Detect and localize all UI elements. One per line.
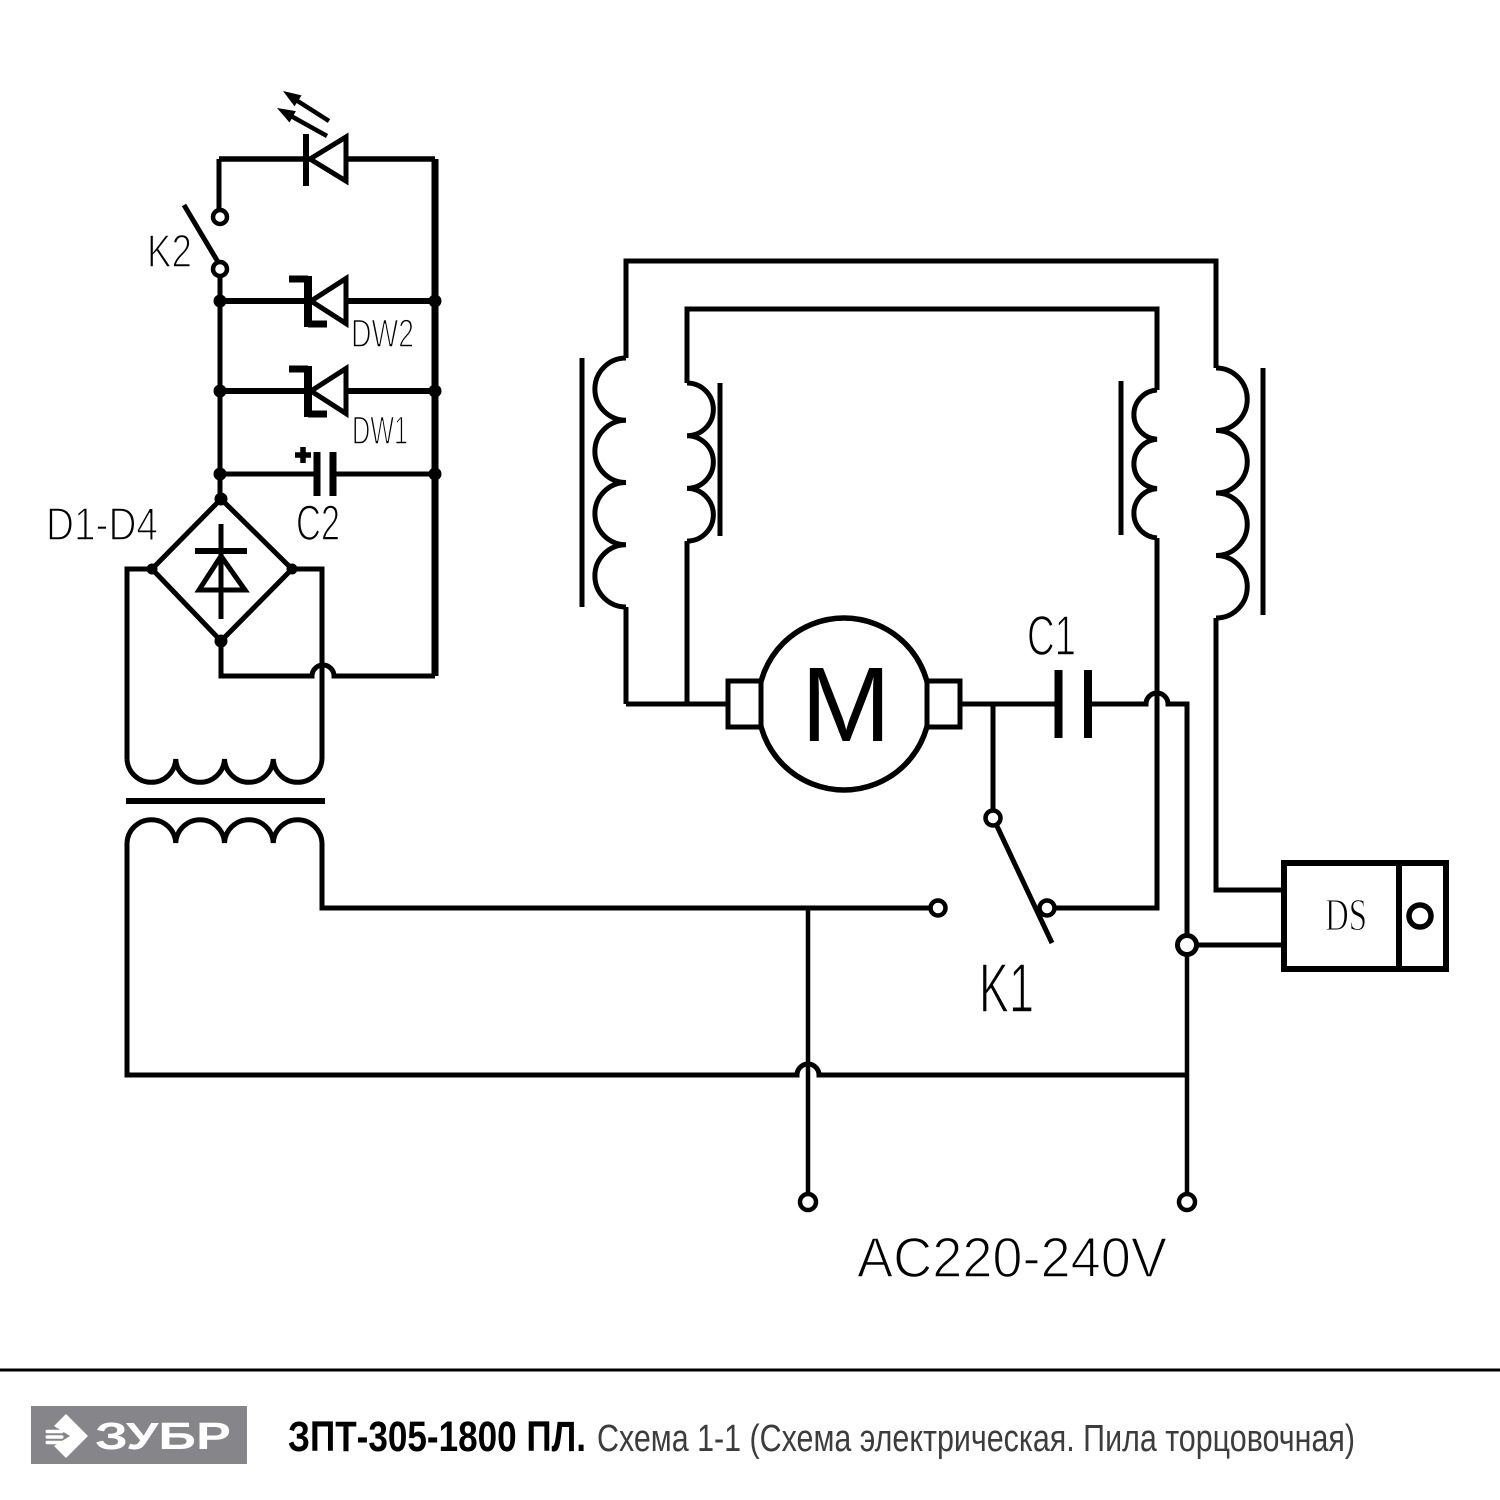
svg-text:DW2: DW2 xyxy=(351,312,414,356)
svg-text:C2: C2 xyxy=(296,495,340,551)
svg-text:Схема 1-1 (Схема электрическая: Схема 1-1 (Схема электрическая. Пила тор… xyxy=(597,1418,1355,1460)
svg-text:D1-D4: D1-D4 xyxy=(46,498,158,550)
svg-text:DW1: DW1 xyxy=(352,409,408,453)
svg-text:AC220-240V: AC220-240V xyxy=(857,1226,1167,1290)
svg-text:K1: K1 xyxy=(979,949,1034,1027)
svg-text:M: M xyxy=(801,646,891,764)
svg-text:C1: C1 xyxy=(1027,604,1076,668)
svg-text:DS: DS xyxy=(1325,889,1367,940)
svg-text:K2: K2 xyxy=(147,225,192,277)
svg-text:ЗУБР: ЗУБР xyxy=(95,1416,231,1458)
svg-text:ЗПТ-305-1800 ПЛ.: ЗПТ-305-1800 ПЛ. xyxy=(288,1414,586,1461)
